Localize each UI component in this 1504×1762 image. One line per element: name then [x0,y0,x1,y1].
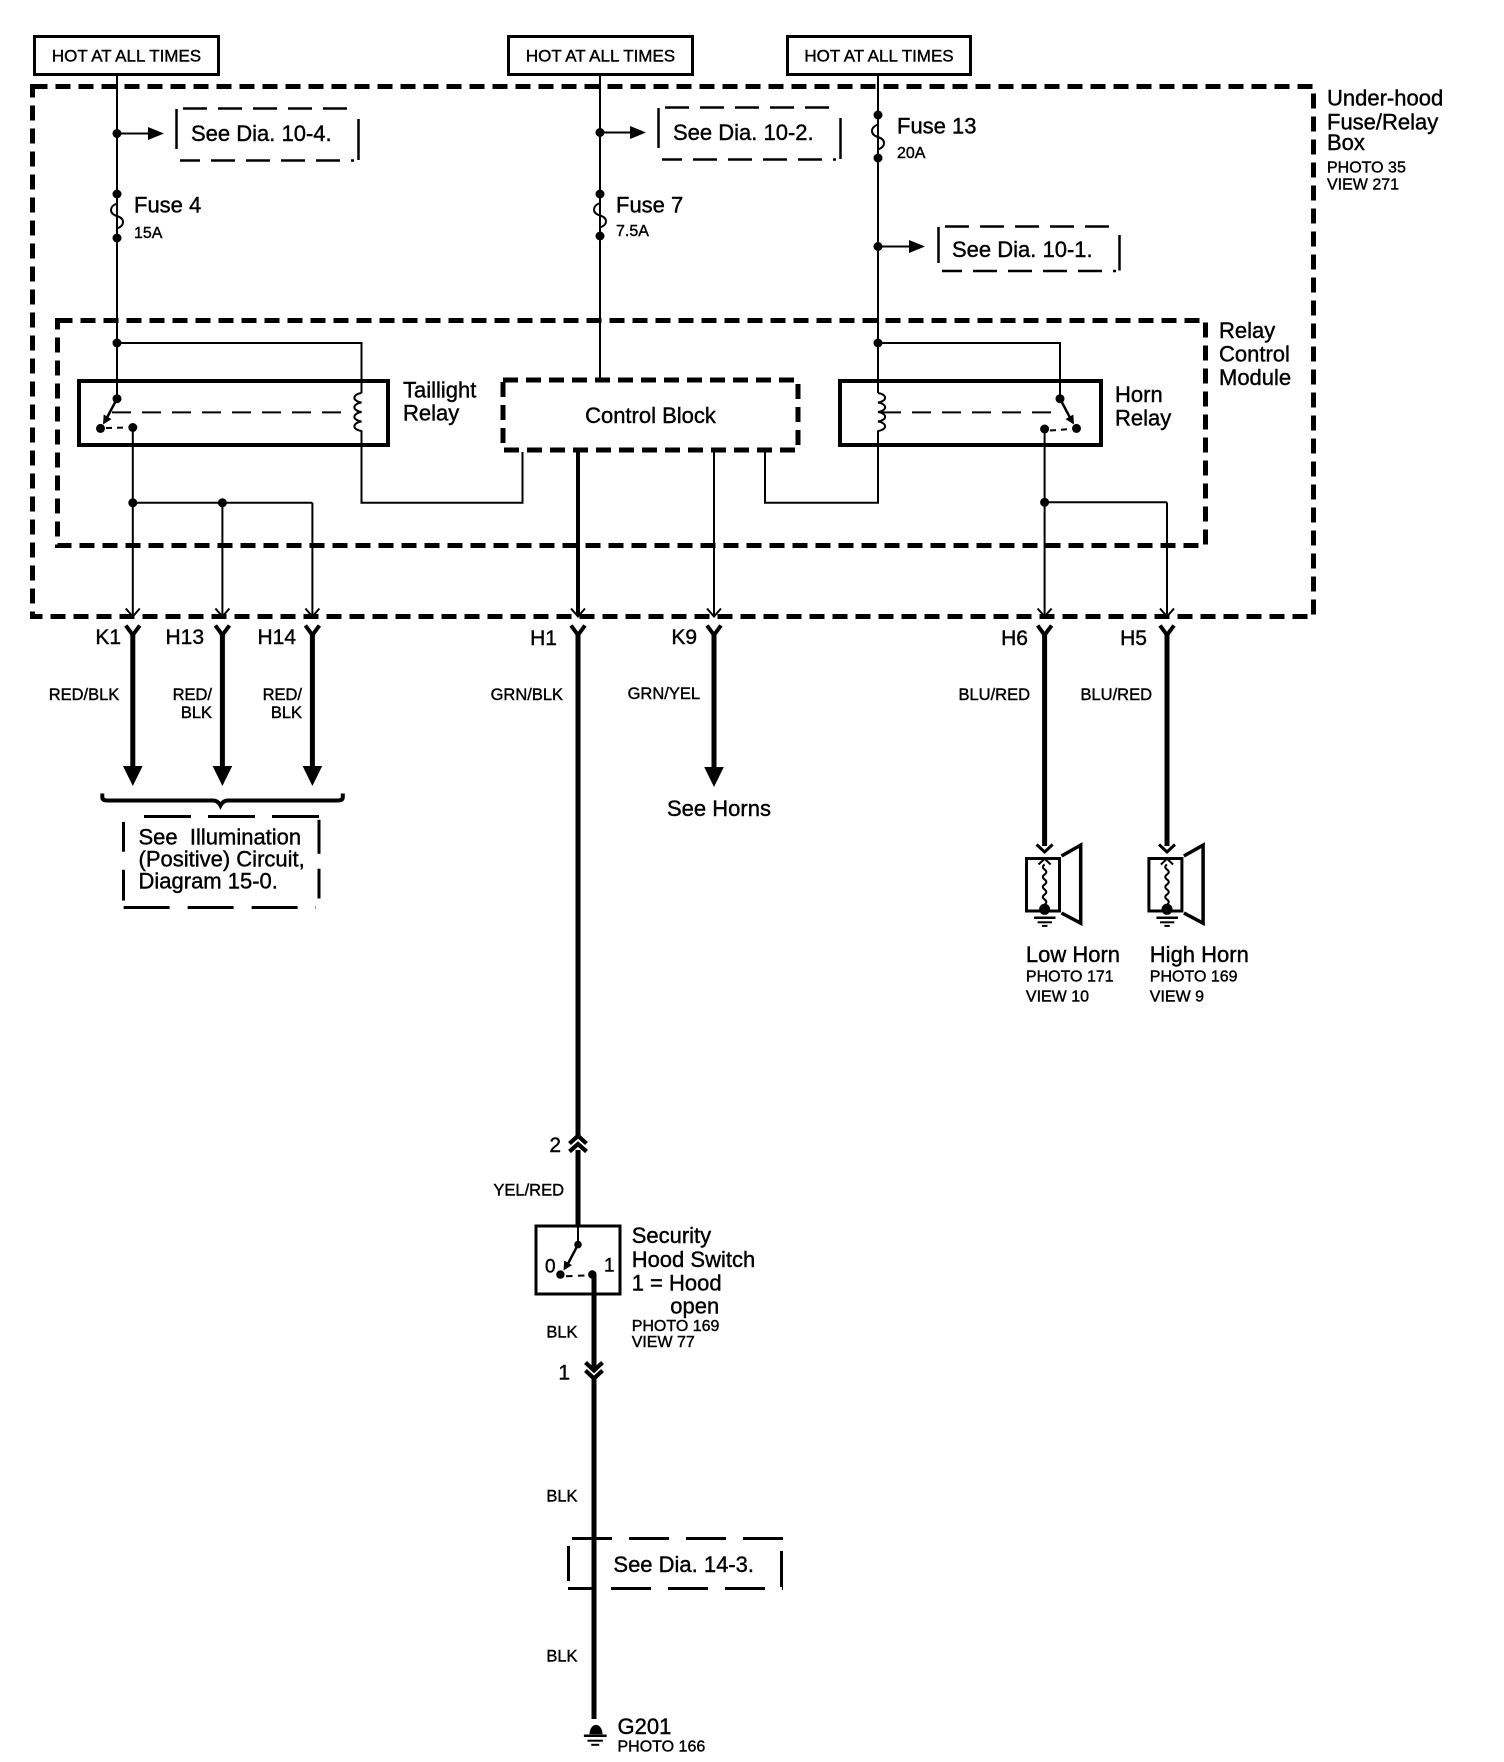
svg-text:BLK: BLK [546,1488,577,1506]
label: Relay Control Module [1219,318,1291,390]
svg-text:Fuse 7: Fuse 7 [616,193,683,218]
wire: branch to horn switch contact [878,343,1060,398]
coil: taillight relay coil L1 [354,393,361,431]
svg-text:HOT AT ALL TIMES: HOT AT ALL TIMES [526,47,675,66]
power label box: HOT AT ALL TIMES (right) [788,37,971,75]
pin H6: exit arrow, terminal, label [1001,609,1051,651]
label: Taillight Relay [403,378,476,426]
switch: Security Hood Switch box [536,1226,620,1294]
wire: branch to taillight coil [117,343,362,393]
svg-text:Module: Module [1219,365,1291,390]
svg-text:PHOTO 166: PHOTO 166 [618,1738,706,1755]
switch: horn relay contacts [1040,394,1081,433]
wire: horn switch output [1044,429,1046,502]
wire: taillight switch output [132,428,134,503]
svg-text:7.5A: 7.5A [616,223,649,240]
pin H1: exit arrow, terminal, label [530,609,585,651]
svg-text:Horn: Horn [1115,382,1163,407]
label: G201 PHOTO 166 [618,1714,706,1756]
switch: taillight relay contacts [96,394,137,433]
svg-text:K9: K9 [671,626,697,649]
svg-text:H13: H13 [165,626,204,649]
svg-text:High Horn: High Horn [1150,942,1249,967]
pin H14: exit arrow, terminal, label [257,609,319,650]
wire: right feed from HOT AT ALL TIMES [877,75,879,393]
svg-text:BLK: BLK [546,1324,577,1342]
svg-text:Relay: Relay [403,401,459,426]
svg-text:Diagram 15-0.: Diagram 15-0. [139,869,278,894]
node: left feed branch junction [113,129,122,138]
wire: drop to pin K1 [132,503,134,615]
wire: branch arrow to See Dia. 10-4 [117,127,164,140]
wire: drop to pin H14 [311,503,313,615]
svg-text:Relay: Relay [1115,406,1171,431]
node: taillight output junction B [218,498,227,507]
svg-text:Low Horn: Low Horn [1026,942,1120,967]
svg-text:Hood Switch: Hood Switch [632,1247,756,1272]
svg-text:RED/: RED/ [263,686,303,704]
wire: Control Block output to pin H1 [576,452,580,615]
See Dia. 10-4 reference box [177,109,359,161]
node: taillight output junction A [128,498,137,507]
svg-text:VIEW 10: VIEW 10 [1026,988,1089,1005]
svg-text:VIEW 9: VIEW 9 [1150,988,1204,1005]
pin H5: exit arrow, terminal, label [1120,609,1174,651]
svg-text:K1: K1 [95,626,121,649]
wire: H1 GRN/BLK trunk [491,634,578,1136]
svg-text:GRN/YEL: GRN/YEL [628,685,700,703]
fuse F4: Fuse 4 15A [111,190,201,243]
fuse F13: Fuse 13 20A [872,111,977,163]
svg-text:2: 2 [549,1134,561,1157]
Under-hood Fuse/Relay Box dashed enclosure [33,87,1314,617]
ground G201 [584,1725,607,1745]
See Dia. 10-1 reference box [939,227,1120,272]
label: Security Hood Switch 1 = Hood open PHOTO 169 VIEW 77 [632,1223,756,1351]
svg-text:BLU/RED: BLU/RED [1080,686,1152,704]
svg-text:Control: Control [1219,342,1290,367]
See Dia. 14-3 reference box [568,1538,783,1590]
svg-text:Relay: Relay [1219,318,1275,343]
svg-text:H1: H1 [530,627,557,650]
relay: Horn Relay body [840,381,1101,445]
label: Under-hood Fuse/Relay Box [1327,86,1443,194]
svg-text:Fuse 4: Fuse 4 [134,193,201,218]
label: Horn Relay [1115,382,1171,431]
wire: drop to pin H13 [221,503,223,615]
wire: drop to pin H6 [1044,502,1046,615]
coil: horn relay coil L2 [878,393,885,431]
svg-text:1: 1 [604,1256,615,1277]
node: taillight coil branch junction [113,339,122,348]
svg-text:open: open [670,1294,719,1319]
svg-text:Box: Box [1327,130,1365,155]
svg-text:Taillight: Taillight [403,378,476,403]
pin H13: exit arrow, terminal, label [165,609,229,650]
wire: H13 RED/BLK arrow to illumination circuit [173,634,233,786]
wire: taillight output bus [133,502,313,504]
svg-text:RED/: RED/ [173,686,213,704]
svg-text:See Horns: See Horns [667,796,771,821]
node: right feed branch junction for See Dia. 10-1 [874,242,883,251]
svg-text:PHOTO 35: PHOTO 35 [1327,160,1406,177]
mechanical link: taillight relay (dashed) [112,411,352,413]
svg-text:See Dia. 10-4.: See Dia. 10-4. [191,121,332,146]
pin K1: exit arrow, terminal, label [95,609,139,650]
wire: H14 RED/BLK arrow to illumination circuit [263,634,323,786]
wire: taillight coil return to Control Block [362,431,523,503]
horn: High Horn symbol [1149,845,1203,926]
svg-text:BLK: BLK [181,704,212,722]
See Dia. 10-2 reference box [659,108,841,160]
wire: horn coil return to Control Block [765,431,878,503]
svg-text:1 = Hood: 1 = Hood [632,1271,722,1296]
wire: K9 GRN/YEL arrow to horns [628,634,724,787]
wire: H6 BLU/RED to Low Horn [958,634,1052,852]
svg-text:Security: Security [632,1223,711,1248]
svg-text:HOT AT ALL TIMES: HOT AT ALL TIMES [804,47,953,66]
wire: switch output BLK [546,1275,594,1369]
svg-text:Under-hood: Under-hood [1327,86,1443,111]
fuse F7: Fuse 7 7.5A [594,190,683,241]
wire: drop to pin H5 [1166,502,1168,615]
svg-text:PHOTO 169: PHOTO 169 [1150,969,1238,986]
wire: branch arrow to See Dia. 10-2 [600,126,646,139]
brace: grouping K1/H13/H14 arrows [102,794,342,806]
svg-text:BLK: BLK [271,704,302,722]
svg-text:Fuse 13: Fuse 13 [897,114,977,139]
svg-text:GRN/BLK: GRN/BLK [491,686,563,704]
label: Low Horn PHOTO 171 VIEW 10 [1026,942,1120,1006]
svg-text:PHOTO 171: PHOTO 171 [1026,969,1114,986]
label: High Horn PHOTO 169 VIEW 9 [1150,942,1249,1006]
wire: BLK down to See Dia. 14-3 [546,1378,594,1719]
power label box: HOT AT ALL TIMES (left) [35,37,219,75]
svg-text:H5: H5 [1120,627,1147,650]
wire: left feed from HOT AT ALL TIMES [116,75,118,399]
connector C2: in-line connector pin 2 [549,1134,586,1157]
node: horn output junction [1040,498,1049,507]
horn: Low Horn symbol [1027,845,1081,926]
wire: H5 BLU/RED to High Horn [1080,634,1175,852]
Control Block dashed box [503,380,798,450]
connector C1: in-line connector pin 1 [558,1362,602,1385]
wire: horn output bus to H5 drop [1045,501,1167,503]
Relay Control Module dashed enclosure [58,321,1206,546]
svg-text:1: 1 [558,1362,570,1385]
svg-text:20A: 20A [897,145,926,162]
svg-text:G201: G201 [618,1714,672,1739]
svg-text:See Dia. 14-3.: See Dia. 14-3. [613,1552,754,1577]
mechanical link: horn relay (dashed) [882,411,1054,413]
pin K9: exit arrow, terminal, label [671,609,721,650]
wire: Control Block output to pin K9 [713,452,715,615]
svg-text:PHOTO 169: PHOTO 169 [632,1318,720,1335]
svg-text:Control Block: Control Block [585,403,717,428]
svg-text:15A: 15A [134,225,163,242]
svg-text:VIEW 77: VIEW 77 [632,1334,695,1351]
wire: branch arrow to See Dia. 10-1 [878,240,925,253]
svg-text:BLU/RED: BLU/RED [958,686,1030,704]
wire: center feed from HOT AT ALL TIMES [599,75,601,379]
relay: Taillight Relay body [79,381,388,445]
node: center feed branch junction [596,128,605,137]
svg-text:0: 0 [545,1257,556,1278]
svg-text:HOT AT ALL TIMES: HOT AT ALL TIMES [52,47,201,66]
wire: YEL/RED to Security Hood Switch [493,1150,578,1225]
svg-text:See Dia. 10-2.: See Dia. 10-2. [673,120,814,145]
svg-text:H6: H6 [1001,627,1028,650]
power label box: HOT AT ALL TIMES (center) [509,37,693,75]
node: horn coil branch junction [874,339,883,348]
svg-text:H14: H14 [257,626,296,649]
See Illumination (Positive) Circuit, Diagram 15-0. reference box [124,817,321,908]
svg-text:RED/BLK: RED/BLK [49,686,120,704]
svg-text:VIEW 271: VIEW 271 [1327,177,1399,194]
svg-text:See Dia. 10-1.: See Dia. 10-1. [952,237,1093,262]
svg-text:BLK: BLK [546,1648,577,1666]
wire: K1 RED/BLK arrow to illumination circuit [49,634,143,786]
svg-text:YEL/RED: YEL/RED [493,1182,564,1200]
